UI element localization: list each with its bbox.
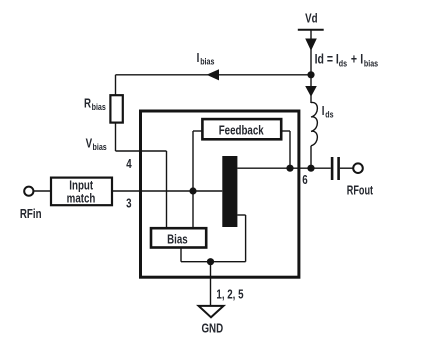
svg-text:4: 4 [126,158,132,172]
label Rbias [84,97,106,112]
svg-text:Id = I: Id = I [315,51,339,67]
svg-text:bias: bias [364,57,379,68]
svg-text:match: match [67,192,96,206]
svg-text:I: I [322,105,325,119]
label Ids [322,105,334,120]
package box outline [141,111,299,277]
supply Vd symbol [298,30,324,75]
svg-text:1, 2, 5: 1, 2, 5 [216,288,244,302]
svg-text:6: 6 [302,174,307,188]
node drain junction inside [286,165,293,172]
capacitor output plate 1 [331,157,334,180]
wire below resistor [115,123,117,151]
svg-text:ds: ds [339,57,348,68]
svg-text:I: I [360,51,363,67]
wire feedback right vertical [289,131,291,168]
wire to ground [210,262,212,306]
svg-text:V: V [86,137,93,151]
wire bias bottom vertical [180,248,182,262]
ground symbol [199,306,224,317]
arrow Id down [305,39,317,51]
wire source vertical [245,215,247,262]
transistor die bar [222,156,237,227]
wire left vertical top [115,75,117,95]
wire cap to RFout [340,167,353,169]
svg-text:Bias: Bias [167,233,188,247]
wire feedback left stub [193,130,202,132]
inductor Ids coil [311,102,317,145]
wire top of inductor [310,75,312,103]
svg-text:bias: bias [92,101,107,112]
svg-text:Input: Input [69,179,93,193]
wire pin4 vertical to Bias [166,151,168,228]
svg-text:RFout: RFout [347,184,373,198]
svg-text:RFin: RFin [20,208,42,222]
svg-text:3: 3 [126,198,131,212]
svg-text:Feedback: Feedback [219,124,264,138]
arrow Ibias left [207,69,220,80]
wire input match to gate (pin 3) [113,190,222,192]
wire bottom horizontal [181,261,246,263]
label Vbias [86,137,107,152]
block Feedback [202,119,281,139]
svg-text:+: + [351,51,357,67]
wire Vbias to pin 4 [116,150,167,152]
block Bias [151,228,206,247]
svg-text:Vd: Vd [305,12,317,26]
terminal RFout [353,163,363,173]
block Input match [51,178,112,206]
wire Ibias horizontal [116,74,312,76]
wire RFin to input match [33,190,51,192]
terminal RFin [24,187,33,196]
svg-text:bias: bias [93,141,108,152]
svg-text:I: I [197,52,200,66]
svg-text:bias: bias [200,55,215,66]
label Id = Ids + Ibias [315,51,379,69]
svg-text:R: R [84,97,92,111]
label Ibias [197,52,215,67]
capacitor output plate 2 [337,157,340,180]
wire feedback right stub [281,130,290,132]
svg-text:GND: GND [201,322,223,336]
arrow Ids down [305,86,317,97]
wire source stub [237,214,245,216]
node junction top [307,71,314,78]
wire below inductor [310,146,312,168]
wire feedback-left vertical [192,131,194,228]
svg-text:ds: ds [325,108,334,119]
resistor R_bias [110,95,122,122]
node source junction [207,258,214,265]
node output junction [307,165,314,172]
node gate junction [189,187,196,194]
wire drain to output cap [237,167,330,169]
